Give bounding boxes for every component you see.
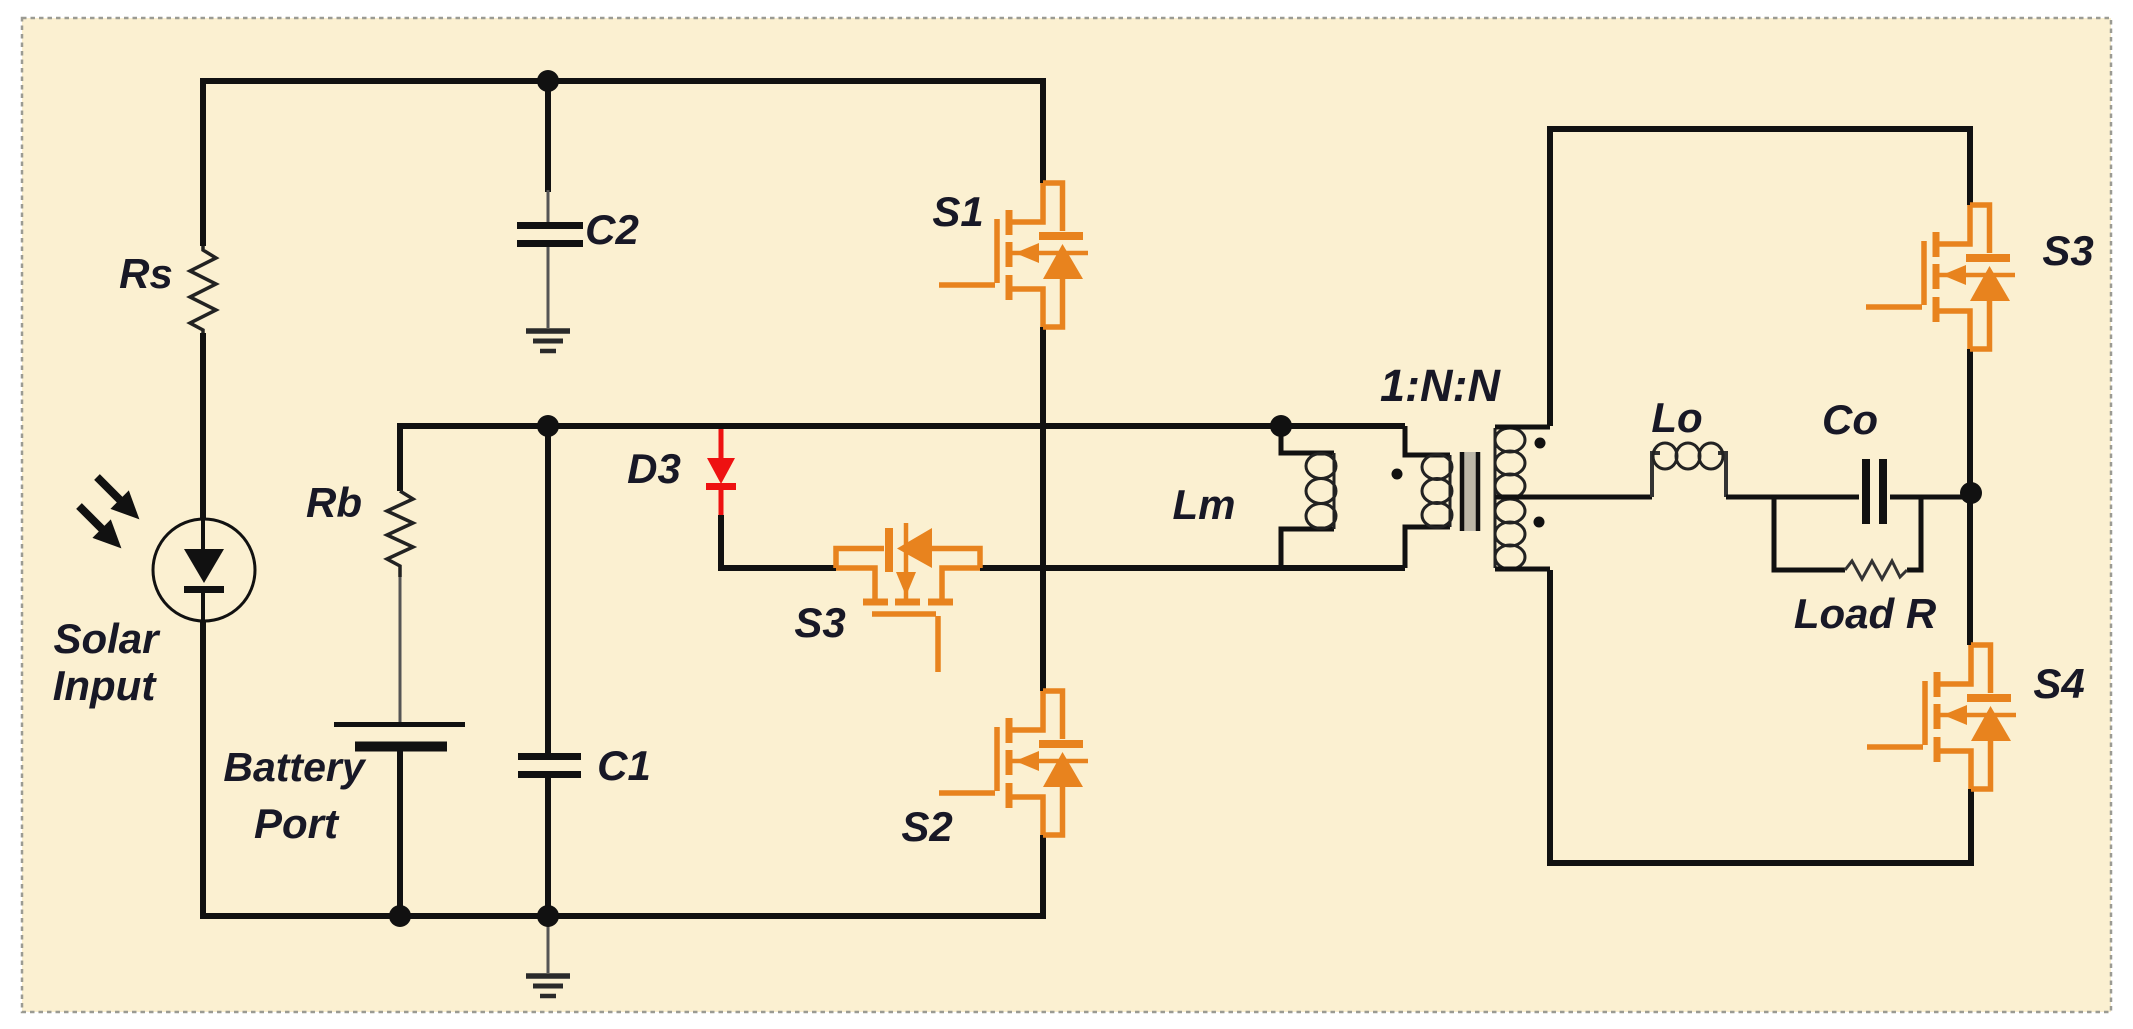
svg-text:S2: S2 [901, 803, 952, 850]
svg-text:Input: Input [53, 662, 158, 709]
svg-text:Rb: Rb [306, 479, 362, 526]
svg-text:Co: Co [1822, 396, 1878, 443]
svg-text:Solar: Solar [53, 615, 161, 662]
svg-text:C1: C1 [597, 742, 651, 789]
svg-text:1:N:N: 1:N:N [1380, 360, 1501, 411]
svg-text:C2: C2 [585, 206, 639, 253]
svg-text:S4: S4 [2033, 660, 2084, 707]
svg-text:Port: Port [254, 800, 340, 847]
svg-text:Battery: Battery [223, 744, 366, 790]
svg-text:S3: S3 [2042, 227, 2093, 274]
svg-text:S3: S3 [794, 599, 845, 646]
svg-text:D3: D3 [627, 445, 681, 492]
svg-text:S1: S1 [932, 188, 983, 235]
svg-text:Lo: Lo [1651, 394, 1702, 441]
svg-text:Lm: Lm [1173, 481, 1236, 528]
svg-text:Rs: Rs [119, 250, 173, 297]
svg-text:Load R: Load R [1794, 590, 1937, 637]
